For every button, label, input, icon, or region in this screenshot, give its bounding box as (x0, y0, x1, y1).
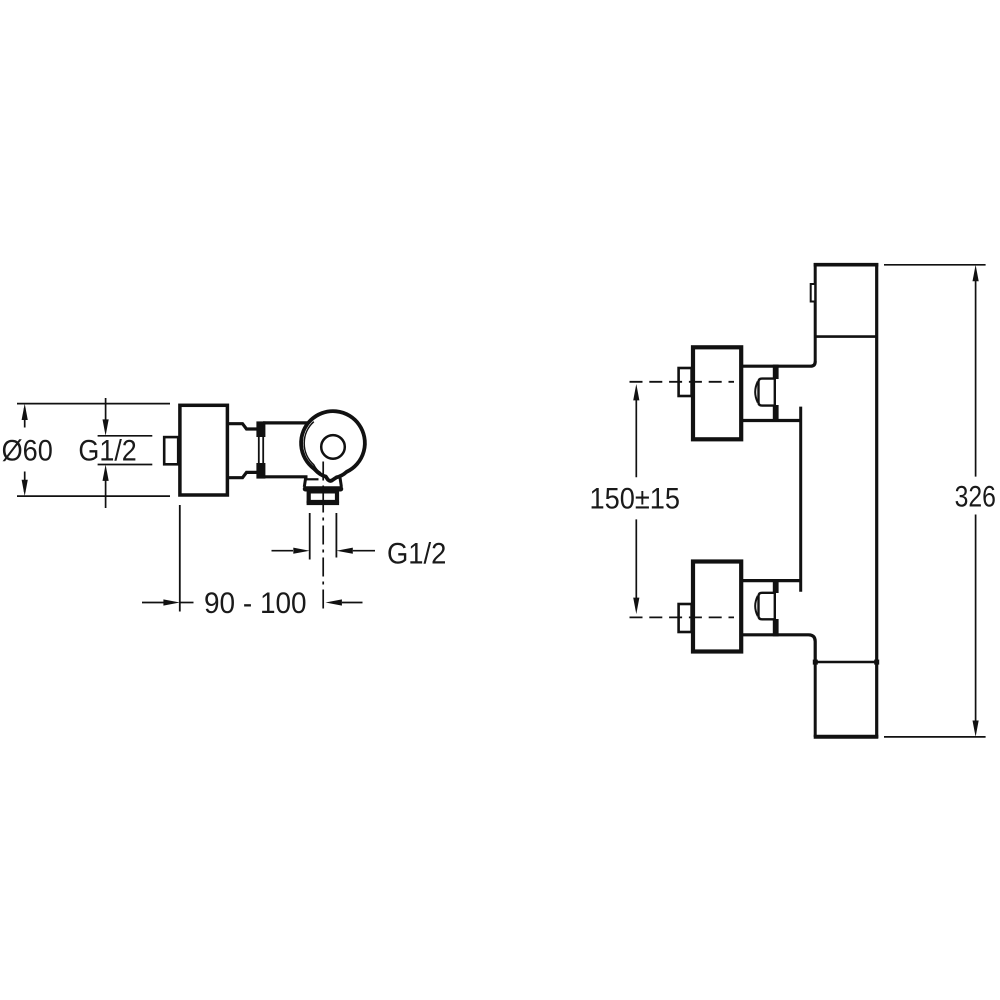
outlet nut (309, 491, 337, 503)
upper handle block (693, 347, 741, 439)
dimension G1/2 outlet left arrow (272, 550, 294, 552)
outlet thick band (303, 486, 343, 491)
body ring thick upper blob (256, 421, 265, 437)
upper valve axis dashed line (630, 381, 735, 383)
svg-text:90 - 100: 90 - 100 (204, 587, 307, 620)
dimension 326 line lower segment with down arrow (975, 515, 977, 725)
upper fitting screw (679, 368, 692, 396)
lower stub top line (743, 579, 801, 582)
dimension 150±15 upper arrow (up) (633, 384, 639, 400)
inlet pipe extension line top (G1/2) (98, 435, 153, 437)
outlet pipe extension line right (335, 513, 337, 558)
svg-text:G1/2: G1/2 (78, 435, 136, 468)
lower fitting screw (679, 604, 692, 632)
dimension Ø60 extension line top (17, 403, 170, 405)
upper stub bottom line (743, 419, 801, 422)
dimension 90-100 left arrow line (142, 602, 165, 604)
small tab on top cap (811, 284, 816, 302)
bottom cap left edge (814, 662, 817, 737)
dimension 326 line upper segment with up arrow (973, 265, 979, 281)
lower stub bottom line with rounded corner (743, 635, 815, 663)
top cap joint line (814, 335, 877, 338)
dimension 326 extension line top (884, 264, 986, 266)
lower thick joint bar (773, 579, 779, 593)
svg-text:G1/2: G1/2 (387, 538, 446, 571)
svg-text:326: 326 (955, 480, 996, 513)
knob center hole (321, 435, 345, 459)
body top line (263, 421, 307, 424)
dimension 150±15 lower arrow (down) (635, 519, 637, 602)
dimension G1/2 lower arrow pointing up (103, 465, 109, 509)
dimension Ø60 extension line bottom (17, 495, 170, 497)
joint node dots (813, 660, 818, 665)
outlet upper block right edge (340, 478, 341, 488)
svg-text:Ø60: Ø60 (2, 435, 53, 468)
dimension 326 extension line bottom (884, 736, 986, 738)
outlet upper block left edge (304, 478, 305, 488)
lower cartridge dome arc (755, 596, 758, 616)
upper thick joint bar (773, 365, 779, 380)
outlet pipe extension line left (309, 513, 311, 560)
dimension 90-100 right arrow (326, 599, 342, 605)
dimension 90-100 stub after extension line (180, 602, 194, 604)
lower valve axis dashed line (630, 616, 735, 618)
dimension G1/2 upper arrow pointing down (103, 398, 109, 436)
dimension Ø60 line upper segment with up arrow (22, 404, 28, 428)
flange face extension line (179, 505, 181, 612)
body bottom line (263, 475, 308, 478)
inlet pipe extension line bottom (G1/2) (98, 464, 153, 466)
central body left edge (799, 407, 802, 592)
body ring thick lower blob (256, 463, 265, 479)
wall flange (side view) (180, 405, 228, 495)
mixer bar top cap left edge (814, 263, 817, 362)
neck between flange and body: top contour (227, 424, 259, 429)
inlet connector stub (164, 437, 178, 464)
upper cartridge dome arc (755, 382, 758, 403)
body ring thin vertical lines (258, 424, 260, 477)
knob inner skirt arc (304, 422, 321, 473)
dimension G1/2 outlet right arrow (336, 548, 352, 554)
lower handle block (693, 562, 741, 652)
control knob (teardrop) outline (301, 411, 365, 481)
upper cartridge bump (759, 379, 775, 406)
lower cartridge bump (759, 593, 775, 620)
mixer bar bottom cap bottom line (814, 735, 879, 739)
svg-text:150±15: 150±15 (590, 483, 681, 516)
upper stub top line with rounded corner (743, 362, 815, 367)
dimension Ø60 line lower segment with down arrow (22, 472, 28, 497)
bottom cap joint line (814, 661, 877, 664)
neck between flange and body: bottom contour (227, 472, 259, 477)
mixer bar right edge (875, 263, 878, 738)
outlet upper block top line (305, 478, 319, 480)
mixer bar top cap top line (814, 263, 879, 267)
outlet nut bottom band (307, 500, 340, 504)
outlet center line (dash-dot) (322, 462, 324, 612)
